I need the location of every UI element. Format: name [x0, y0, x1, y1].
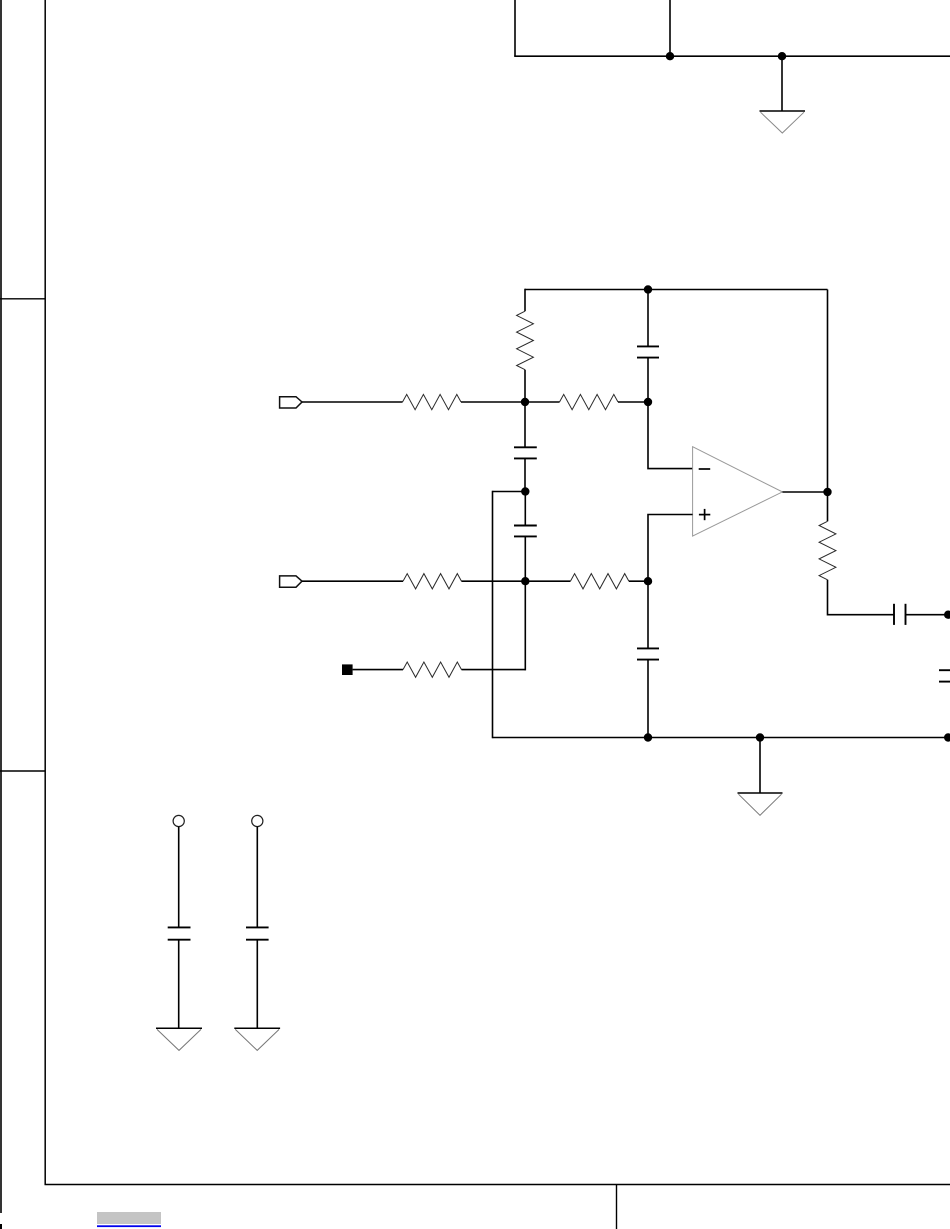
- wire R7 to node D branch: [462, 669, 526, 671]
- resistor R5: [403, 574, 462, 589]
- op-amp minus label: [699, 468, 711, 470]
- wire TP1 to C7: [178, 827, 180, 928]
- wire R4 to C5: [828, 580, 895, 615]
- wire node B to inverting input: [648, 402, 693, 469]
- junction bottom bus node E: [644, 733, 652, 741]
- sheet border left outer line: [0, 0, 2, 1213]
- sheet border bottom line: [45, 1184, 950, 1186]
- wire node D to non-inverting input: [648, 515, 693, 582]
- link annotation box: [97, 1212, 161, 1224]
- resistor R3: [560, 394, 619, 409]
- ground GND1: [760, 111, 806, 133]
- capacitor C3: [514, 526, 537, 537]
- op-amp U1: [693, 447, 783, 536]
- wire C4 top stub: [647, 581, 649, 648]
- wire R5 to node D: [462, 580, 526, 582]
- ground GND3: [156, 1028, 202, 1050]
- capacitor C1: [637, 346, 659, 357]
- title block divider: [616, 1185, 618, 1229]
- wire R4 top stub: [827, 492, 829, 521]
- wire J1 to R2: [302, 401, 403, 403]
- input port J1: [280, 397, 302, 408]
- op-amp plus label: [699, 509, 710, 520]
- junction right edge lower: [944, 733, 950, 741]
- test point TP1: [173, 815, 184, 826]
- wire node C jog: [493, 491, 526, 493]
- capacitor C5: [894, 604, 906, 625]
- wire C1 bottom stub: [647, 358, 649, 402]
- wire top vertical left: [514, 0, 516, 56]
- wire J2 to R5: [302, 580, 403, 582]
- sheet border left bottom tick: [0, 1224, 2, 1229]
- resistor R6: [570, 574, 629, 589]
- junction node D: [521, 577, 529, 585]
- wire R3 to node B: [618, 401, 648, 403]
- capacitor C6 (clipped at edge): [939, 670, 950, 681]
- wire TP2 to C8: [256, 827, 258, 928]
- wire left vertical to bottom bus: [492, 491, 494, 739]
- junction bottom bus ground tap: [756, 733, 764, 741]
- junction node B: [644, 398, 652, 406]
- resistor R1: [517, 311, 534, 370]
- wire node D to R6: [525, 580, 570, 582]
- sheet zone divider tick lower: [0, 770, 45, 772]
- junction right edge upper: [944, 611, 950, 619]
- wire C3 top stub: [524, 492, 526, 526]
- wire R1 bottom stub: [524, 370, 526, 402]
- test point TP2: [252, 815, 263, 826]
- wire C8 to GND4: [256, 940, 258, 1028]
- capacitor C4: [637, 648, 659, 659]
- capacitor C7: [168, 927, 191, 939]
- junction top bus left: [666, 52, 674, 60]
- wire top horizontal bus: [514, 55, 950, 57]
- capacitor C2: [514, 447, 537, 458]
- resistor R4: [819, 521, 836, 580]
- wire to bottom ground: [759, 738, 761, 794]
- sheet zone divider tick upper: [0, 298, 45, 300]
- resistor R7: [403, 662, 462, 677]
- wire node A to R3: [525, 401, 560, 403]
- ground GND2: [738, 793, 783, 815]
- resistor R2: [403, 394, 462, 409]
- wire C3 bottom stub: [524, 536, 526, 581]
- wire node D down to R7 line: [524, 581, 526, 670]
- wire C2 bottom stub: [524, 458, 526, 491]
- wire R1 top stub: [524, 289, 526, 312]
- link annotation underline: [97, 1225, 161, 1227]
- wire R2 to node A: [461, 401, 525, 403]
- wire R6 to node E: [629, 580, 648, 582]
- wire op-amp output: [782, 491, 827, 493]
- junction node A: [521, 398, 529, 406]
- wire TP3 to R7: [353, 669, 403, 671]
- junction output node: [823, 488, 831, 496]
- wire feedback right vertical: [827, 290, 829, 493]
- wire C5 to right edge: [906, 614, 950, 616]
- sheet border left inner line: [44, 0, 46, 1185]
- wire bottom bus: [493, 737, 950, 739]
- input port J2: [280, 576, 302, 587]
- wire to top ground: [781, 56, 783, 111]
- junction feedback top: [644, 285, 652, 293]
- wire C2 top stub: [524, 402, 526, 447]
- wire feedback top horizontal: [525, 289, 828, 291]
- terminal pin TP3 (solid square): [342, 664, 353, 675]
- ground GND4: [234, 1028, 280, 1050]
- capacitor C8: [246, 927, 269, 939]
- junction top bus right: [778, 52, 786, 60]
- junction node E: [644, 577, 652, 585]
- junction node C: [521, 487, 529, 495]
- wire C7 to GND3: [178, 940, 180, 1028]
- wire top vertical right: [669, 0, 671, 56]
- wire C1 top stub: [647, 290, 649, 347]
- wire C4 bottom stub: [647, 660, 649, 738]
